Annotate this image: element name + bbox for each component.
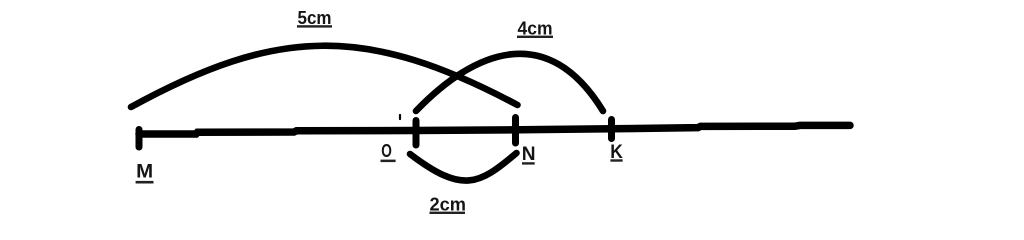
underline of M: [136, 181, 154, 184]
node K tick: [608, 120, 615, 139]
node O tick: [413, 121, 420, 146]
stray mark above line left of O: [399, 115, 401, 119]
svg-text:2cm: 2cm: [430, 194, 467, 215]
svg-text:5cm: 5cm: [298, 7, 332, 28]
arc 5cm from M to N: [131, 46, 518, 107]
underline of 5cm: [297, 25, 332, 27]
underline of 4cm: [517, 36, 553, 38]
svg-text:4cm: 4cm: [518, 18, 553, 39]
svg-text:M: M: [136, 162, 153, 183]
underline of K: [610, 159, 622, 161]
svg-text:O: O: [381, 140, 392, 161]
node N tick: [512, 118, 519, 144]
underline of 2cm: [430, 212, 466, 214]
wire main horizontal line M to right end: [139, 125, 850, 134]
arc 2cm from O to N (below line): [410, 153, 517, 181]
arc 4cm from O to K: [416, 54, 603, 111]
underline of O: [381, 160, 396, 163]
svg-text:N: N: [522, 143, 536, 165]
node M tick: [136, 130, 143, 148]
underline of N: [522, 162, 535, 164]
